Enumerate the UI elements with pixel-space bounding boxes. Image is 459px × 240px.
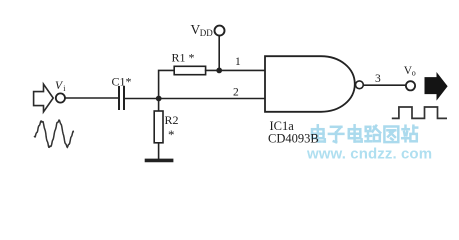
svg-text:www. cndzz. com: www. cndzz. com [306, 145, 432, 162]
svg-text:3: 3 [375, 73, 381, 85]
svg-text:R2: R2 [165, 113, 179, 127]
svg-text:o: o [412, 69, 416, 78]
svg-text:1: 1 [235, 56, 241, 68]
svg-text:R1 *: R1 * [172, 51, 195, 65]
svg-text:2: 2 [233, 87, 239, 99]
svg-text:C1*: C1* [112, 75, 132, 89]
svg-text:CD4093B: CD4093B [268, 131, 319, 145]
svg-text:DD: DD [200, 28, 213, 38]
svg-text:*: * [168, 127, 175, 142]
